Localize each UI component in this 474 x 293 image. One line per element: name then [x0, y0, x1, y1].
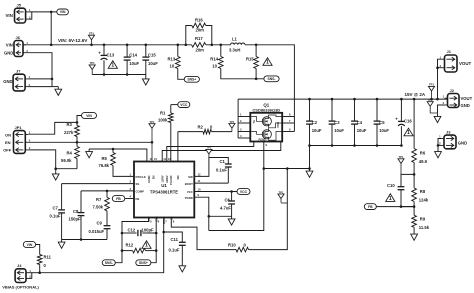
svg-text:227k: 227k: [64, 130, 74, 135]
svg-text:R17: R17: [195, 36, 203, 41]
svg-text:SNS+: SNS+: [139, 261, 148, 265]
svg-text:PGND: PGND: [259, 139, 266, 142]
svg-text:+: +: [395, 117, 398, 122]
svg-text:C7: C7: [53, 206, 59, 211]
svg-text:R5: R5: [102, 156, 108, 161]
svg-text:C13: C13: [107, 53, 115, 58]
svg-text:3.3uH: 3.3uH: [229, 48, 240, 53]
svg-text:VIN: VIN: [6, 43, 13, 48]
svg-text:1: 1: [266, 60, 269, 66]
svg-text:RT/CLK: RT/CLK: [136, 175, 146, 179]
svg-text:TP1: TP1: [89, 32, 94, 36]
svg-text:FB: FB: [116, 197, 121, 201]
svg-text:COMP: COMP: [136, 190, 145, 194]
svg-text:FB: FB: [368, 205, 373, 209]
svg-text:SNS-: SNS-: [105, 261, 113, 265]
svg-text:0.1uF: 0.1uF: [50, 214, 61, 219]
svg-text:C1: C1: [220, 159, 226, 164]
svg-text:GND: GND: [3, 79, 12, 84]
svg-text:C5: C5: [379, 120, 385, 125]
svg-text:C4: C4: [357, 120, 363, 125]
svg-text:10: 10: [170, 63, 175, 68]
svg-text:VIN: VIN: [60, 10, 66, 14]
svg-text:R16: R16: [195, 18, 203, 23]
svg-text:OFF: OFF: [3, 148, 12, 153]
svg-text:GND: GND: [458, 141, 467, 146]
svg-text:100pF: 100pF: [142, 228, 155, 233]
svg-text:C15: C15: [148, 53, 156, 58]
svg-text:LDRV: LDRV: [162, 175, 165, 182]
svg-text:124k: 124k: [419, 198, 429, 203]
svg-text:L1: L1: [232, 37, 238, 42]
svg-text:10uF: 10uF: [312, 128, 322, 133]
svg-text:R11: R11: [44, 255, 52, 260]
svg-text:R2: R2: [198, 125, 204, 130]
svg-text:TP1: TP1: [90, 61, 95, 65]
svg-text:59.0k: 59.0k: [61, 158, 72, 163]
svg-text:CSD86336Q3D: CSD86336Q3D: [252, 108, 280, 113]
svg-text:TP1: TP1: [399, 155, 404, 159]
svg-text:100k: 100k: [158, 118, 168, 123]
svg-text:10: 10: [212, 63, 217, 68]
svg-text:14: 14: [163, 157, 166, 161]
svg-text:10uF: 10uF: [379, 128, 389, 133]
svg-text:J5: J5: [17, 3, 22, 8]
svg-text:JP1: JP1: [15, 125, 23, 130]
svg-text:VCC: VCC: [187, 190, 193, 194]
svg-text:R12: R12: [126, 243, 134, 248]
svg-text:10uF: 10uF: [148, 61, 158, 66]
svg-text:1: 1: [389, 196, 392, 202]
svg-text:10uF: 10uF: [334, 128, 344, 133]
svg-text:VSW: VSW: [277, 121, 280, 127]
svg-text:R15: R15: [246, 57, 254, 62]
svg-text:TP1: TP1: [429, 83, 434, 87]
svg-text:20m: 20m: [196, 48, 205, 53]
svg-text:C2: C2: [312, 120, 318, 125]
svg-text:4.7uF: 4.7uF: [220, 206, 231, 211]
svg-text:R10: R10: [228, 243, 236, 248]
svg-text:0.1uF: 0.1uF: [216, 168, 227, 173]
svg-text:PGND: PGND: [185, 196, 193, 200]
svg-text:SNS-: SNS-: [267, 77, 275, 81]
svg-text:HDRV: HDRV: [166, 175, 169, 182]
svg-text:150pF: 150pF: [69, 217, 82, 222]
svg-text:TG: TG: [253, 120, 256, 124]
svg-text:R1: R1: [160, 111, 166, 116]
svg-text:R4: R4: [67, 151, 73, 156]
svg-text:VIN: VIN: [86, 114, 92, 118]
svg-text:0.015uF: 0.015uF: [89, 229, 105, 234]
svg-text:TP1: TP1: [206, 146, 211, 150]
svg-text:R13: R13: [168, 57, 176, 62]
svg-text:R9: R9: [420, 217, 426, 222]
svg-text:C11: C11: [171, 237, 179, 242]
svg-text:11.5k: 11.5k: [419, 225, 430, 230]
svg-text:49.9: 49.9: [419, 159, 428, 164]
svg-text:SNS+: SNS+: [187, 78, 196, 82]
svg-text:VIN: VIN: [6, 13, 13, 18]
svg-text:ON: ON: [5, 132, 11, 137]
svg-text:VOUT: VOUT: [461, 96, 473, 101]
svg-text:R14: R14: [210, 57, 218, 62]
svg-text:12: 12: [198, 172, 201, 176]
svg-text:76.8k: 76.8k: [99, 163, 110, 168]
svg-text:VIN: VIN: [177, 175, 180, 179]
svg-text:10uF: 10uF: [357, 128, 367, 133]
svg-text:J1: J1: [447, 49, 452, 54]
svg-text:C6: C6: [225, 198, 231, 203]
svg-text:R7: R7: [96, 197, 102, 202]
svg-text:J7: J7: [16, 69, 21, 74]
svg-text:R3: R3: [67, 122, 73, 127]
svg-text:J6: J6: [16, 35, 21, 40]
svg-text:C16: C16: [404, 119, 412, 124]
svg-text:VCC: VCC: [180, 103, 188, 107]
svg-text:TP1: TP1: [279, 190, 284, 194]
svg-text:R8: R8: [420, 189, 426, 194]
svg-text:TP1: TP1: [229, 120, 234, 124]
svg-text:10: 10: [198, 188, 201, 192]
svg-text:U1: U1: [161, 183, 167, 188]
svg-text:AGND: AGND: [148, 175, 151, 183]
svg-text:1: 1: [145, 243, 148, 249]
svg-text:C3: C3: [334, 120, 340, 125]
svg-text:+: +: [98, 51, 101, 56]
svg-text:EN: EN: [152, 175, 155, 179]
svg-text:EN: EN: [5, 140, 11, 145]
svg-text:GND: GND: [461, 103, 470, 108]
svg-text:1: 1: [111, 63, 114, 69]
svg-text:C12: C12: [128, 228, 136, 233]
svg-text:16: 16: [150, 157, 153, 161]
svg-text:VOUT: VOUT: [459, 61, 472, 66]
svg-text:15V @ 2A: 15V @ 2A: [405, 92, 426, 97]
svg-text:1: 1: [407, 130, 410, 136]
svg-text:SW: SW: [188, 175, 193, 179]
svg-text:BOOT: BOOT: [185, 182, 193, 186]
svg-text:TPS43061RTE: TPS43061RTE: [150, 190, 178, 195]
svg-text:VCC: VCC: [240, 190, 248, 194]
svg-text:VBIAS (OPTIONAL): VBIAS (OPTIONAL): [2, 285, 39, 290]
svg-text:20m: 20m: [196, 28, 205, 33]
svg-text:GND: GND: [4, 50, 13, 55]
svg-text:R6: R6: [420, 151, 426, 156]
svg-text:J4: J4: [17, 263, 22, 268]
svg-text:C8: C8: [73, 209, 79, 214]
svg-text:C14: C14: [129, 53, 137, 58]
svg-text:C9: C9: [97, 221, 103, 226]
svg-text:C10: C10: [387, 183, 395, 188]
svg-text:J3: J3: [446, 130, 451, 135]
svg-text:TP1: TP1: [428, 98, 433, 102]
svg-text:7.50k: 7.50k: [93, 205, 104, 210]
svg-text:PGOOD: PGOOD: [170, 175, 173, 185]
svg-text:VIN: VIN: [27, 243, 33, 247]
svg-text:10uF: 10uF: [129, 61, 139, 66]
svg-text:0.1uF: 0.1uF: [169, 248, 180, 253]
svg-text:TP1: TP1: [150, 120, 155, 124]
svg-text:15: 15: [154, 157, 157, 161]
svg-text:J2: J2: [450, 88, 455, 93]
svg-text:SS: SS: [136, 182, 140, 186]
svg-text:VIN: 6V-12.6V: VIN: 6V-12.6V: [58, 38, 88, 43]
svg-text:FB: FB: [136, 197, 140, 201]
